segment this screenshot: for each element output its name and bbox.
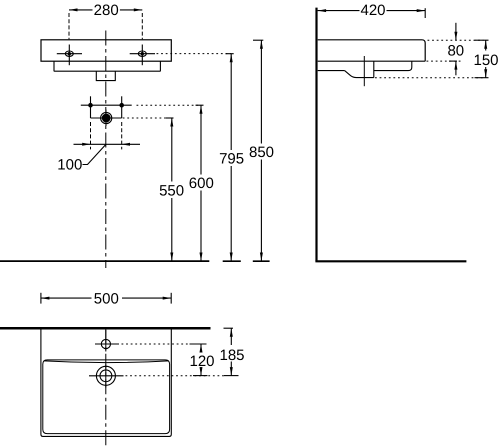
right tap hole: ellipse (138, 51, 146, 56)
dim 795: line (230, 54, 232, 261)
dim 185: bottom tick (224, 375, 239, 377)
supply dots: left dot (88, 103, 93, 108)
drain cup right edge (373, 61, 375, 77)
dim 280: left arrow (69, 8, 78, 11)
drain center line (side view) (363, 56, 365, 86)
svg-text:185: 185 (219, 347, 244, 364)
svg-text:120: 120 (189, 353, 214, 370)
dim 100: right arrow (outside, pointing left) (122, 143, 130, 146)
dashed extension below right supply (121, 122, 123, 149)
dim 850: bottom arrow (260, 253, 263, 262)
dim 80: top arrow (pointing down) (454, 32, 457, 41)
basin front: main rectangle (41, 40, 171, 61)
basin side profile: top + right edge (318, 40, 426, 61)
dim 150: top arrow (484, 40, 487, 49)
dim 550: top arrow (170, 118, 173, 127)
left tap hole: ellipse (65, 51, 73, 56)
svg-text:500: 500 (94, 291, 119, 308)
waste outlet: outer ring (101, 112, 112, 123)
plan center line (dash-dot) (105, 328, 107, 445)
supply right vertical (121, 96, 123, 118)
wall line (plan view) (0, 327, 211, 330)
floor tick at dim 795 (223, 260, 241, 262)
dim 150: bottom arrow (484, 69, 487, 78)
dim 500: left tick (40, 293, 42, 304)
plan drain: dotted to 185 dim (126, 375, 225, 377)
dim 500: line (41, 297, 171, 299)
dim 80: bottom arrow (pointing up) (454, 61, 457, 70)
dim 795: top tick (226, 53, 234, 55)
dotted: basin top level to right (428, 39, 484, 41)
basin front: drain spigot rect (96, 71, 115, 80)
floor line (side view) (315, 260, 466, 262)
basin side profile: bottom of rim line (318, 60, 426, 62)
dotted: rim bottom level to right (427, 60, 463, 62)
dim 550: line (171, 118, 173, 261)
basin plan: back ledge curve (44, 361, 169, 363)
plan tap hole: circle (101, 339, 110, 348)
svg-text:100: 100 (57, 157, 82, 174)
dim 100: line (74, 143, 141, 145)
right tap hole: vertical cross line (141, 45, 143, 66)
dim 120: bottom tick (193, 375, 208, 377)
dim 600: bottom arrow (200, 253, 203, 262)
dim 600: top tick (196, 104, 204, 106)
svg-text:850: 850 (249, 144, 274, 161)
wall line gap segment (tick of 185) (224, 327, 234, 329)
svg-text:795: 795 (219, 151, 244, 168)
plan drain: inner circle (100, 370, 112, 382)
basin side profile: lower block (318, 61, 412, 70)
plan tap hole: horizontal cross (95, 343, 119, 345)
svg-text:600: 600 (189, 175, 214, 192)
dim 120: top tick (190, 343, 207, 345)
dim 280: extension dash right (141, 13, 143, 39)
plan drain: outer circle (96, 366, 115, 385)
supply dots: horizontal line (81, 104, 132, 106)
floor tick at dim 850 (253, 260, 270, 262)
dim 100: leader line (83, 144, 107, 164)
dim 420: left arrow (318, 9, 327, 12)
basin plan: inner bowl rounded rect (43, 360, 170, 434)
dim 500: right arrow (163, 297, 172, 300)
svg-text:280: 280 (94, 2, 119, 19)
dim 850: line (260, 40, 262, 261)
dim 80: bottom segment (455, 61, 457, 75)
dim 185: top arrow (230, 328, 233, 337)
dim 600: top arrow (200, 105, 203, 114)
dashed extension below left supply (90, 122, 92, 149)
waste line horizontal (91, 117, 122, 119)
dim 280: right arrow (134, 8, 143, 11)
dim 420: right arrow (417, 9, 426, 12)
dim 280: line (69, 9, 142, 11)
left tap hole: center dot (68, 52, 71, 55)
plan tap hole: dotted to 120 dim (122, 343, 191, 345)
dotted line from tap holes to 795 dim (157, 53, 232, 55)
right tap hole: horizontal cross line (130, 53, 155, 55)
svg-text:420: 420 (360, 2, 385, 19)
waste outlet: filled center (102, 114, 111, 123)
dotted: drain bottom level to right (375, 77, 484, 79)
left tap hole: vertical cross line (68, 45, 70, 66)
dim 100: left arrow (outside, pointing right) (82, 143, 90, 146)
dim 150: bottom tick (475, 77, 489, 79)
front center solid segment through waste outlet (105, 110, 107, 127)
basin front: lower inset block (54, 61, 160, 71)
dim 420: right tick (424, 8, 426, 18)
dim 500: right tick (170, 293, 172, 304)
dotted line from waste to 550 dim (114, 117, 172, 119)
front center line (dash-dot) (105, 31, 107, 269)
dim 120: top arrow (200, 344, 203, 353)
dim 850: top tick (253, 39, 263, 41)
dim 150: top tick (475, 39, 489, 41)
dim 850: top arrow (260, 40, 263, 49)
dim 120: line (200, 344, 202, 376)
supply dots: dotted line to 600 dim (137, 104, 202, 106)
dim 150: line (485, 40, 487, 77)
plan drain: horizontal cross (89, 375, 124, 377)
dim 550: bottom arrow (170, 253, 173, 262)
svg-text:80: 80 (447, 43, 464, 60)
supply left vertical (90, 96, 92, 118)
dim 420: line (318, 10, 426, 12)
supply dots: right dot (119, 103, 124, 108)
wall line (side view) (315, 8, 317, 262)
plan center solid segment through tap hole (105, 330, 107, 352)
svg-text:550: 550 (159, 182, 184, 199)
dim 795: bottom arrow (230, 253, 233, 262)
left tap hole: horizontal cross line (57, 53, 82, 55)
floor line (front view) (0, 260, 209, 262)
svg-text:150: 150 (473, 52, 498, 69)
dim 550: top tick (166, 117, 174, 119)
dim 80: bottom tick (449, 60, 457, 62)
dim 80: top segment (455, 23, 457, 40)
dim 600: line (200, 105, 202, 261)
dim 500: left arrow (41, 297, 50, 300)
dim 280: extension dash left (68, 13, 70, 39)
plan center solid segment through drain (105, 365, 107, 388)
dim 120: bottom arrow (200, 367, 203, 376)
dim 185: line (230, 328, 232, 375)
basin plan: outer rim (41, 328, 171, 436)
right tap hole: center dot (141, 52, 144, 55)
dim 185: bottom arrow (230, 367, 233, 376)
dim 795: top arrow (230, 54, 233, 63)
drain cup under basin (345, 71, 374, 78)
